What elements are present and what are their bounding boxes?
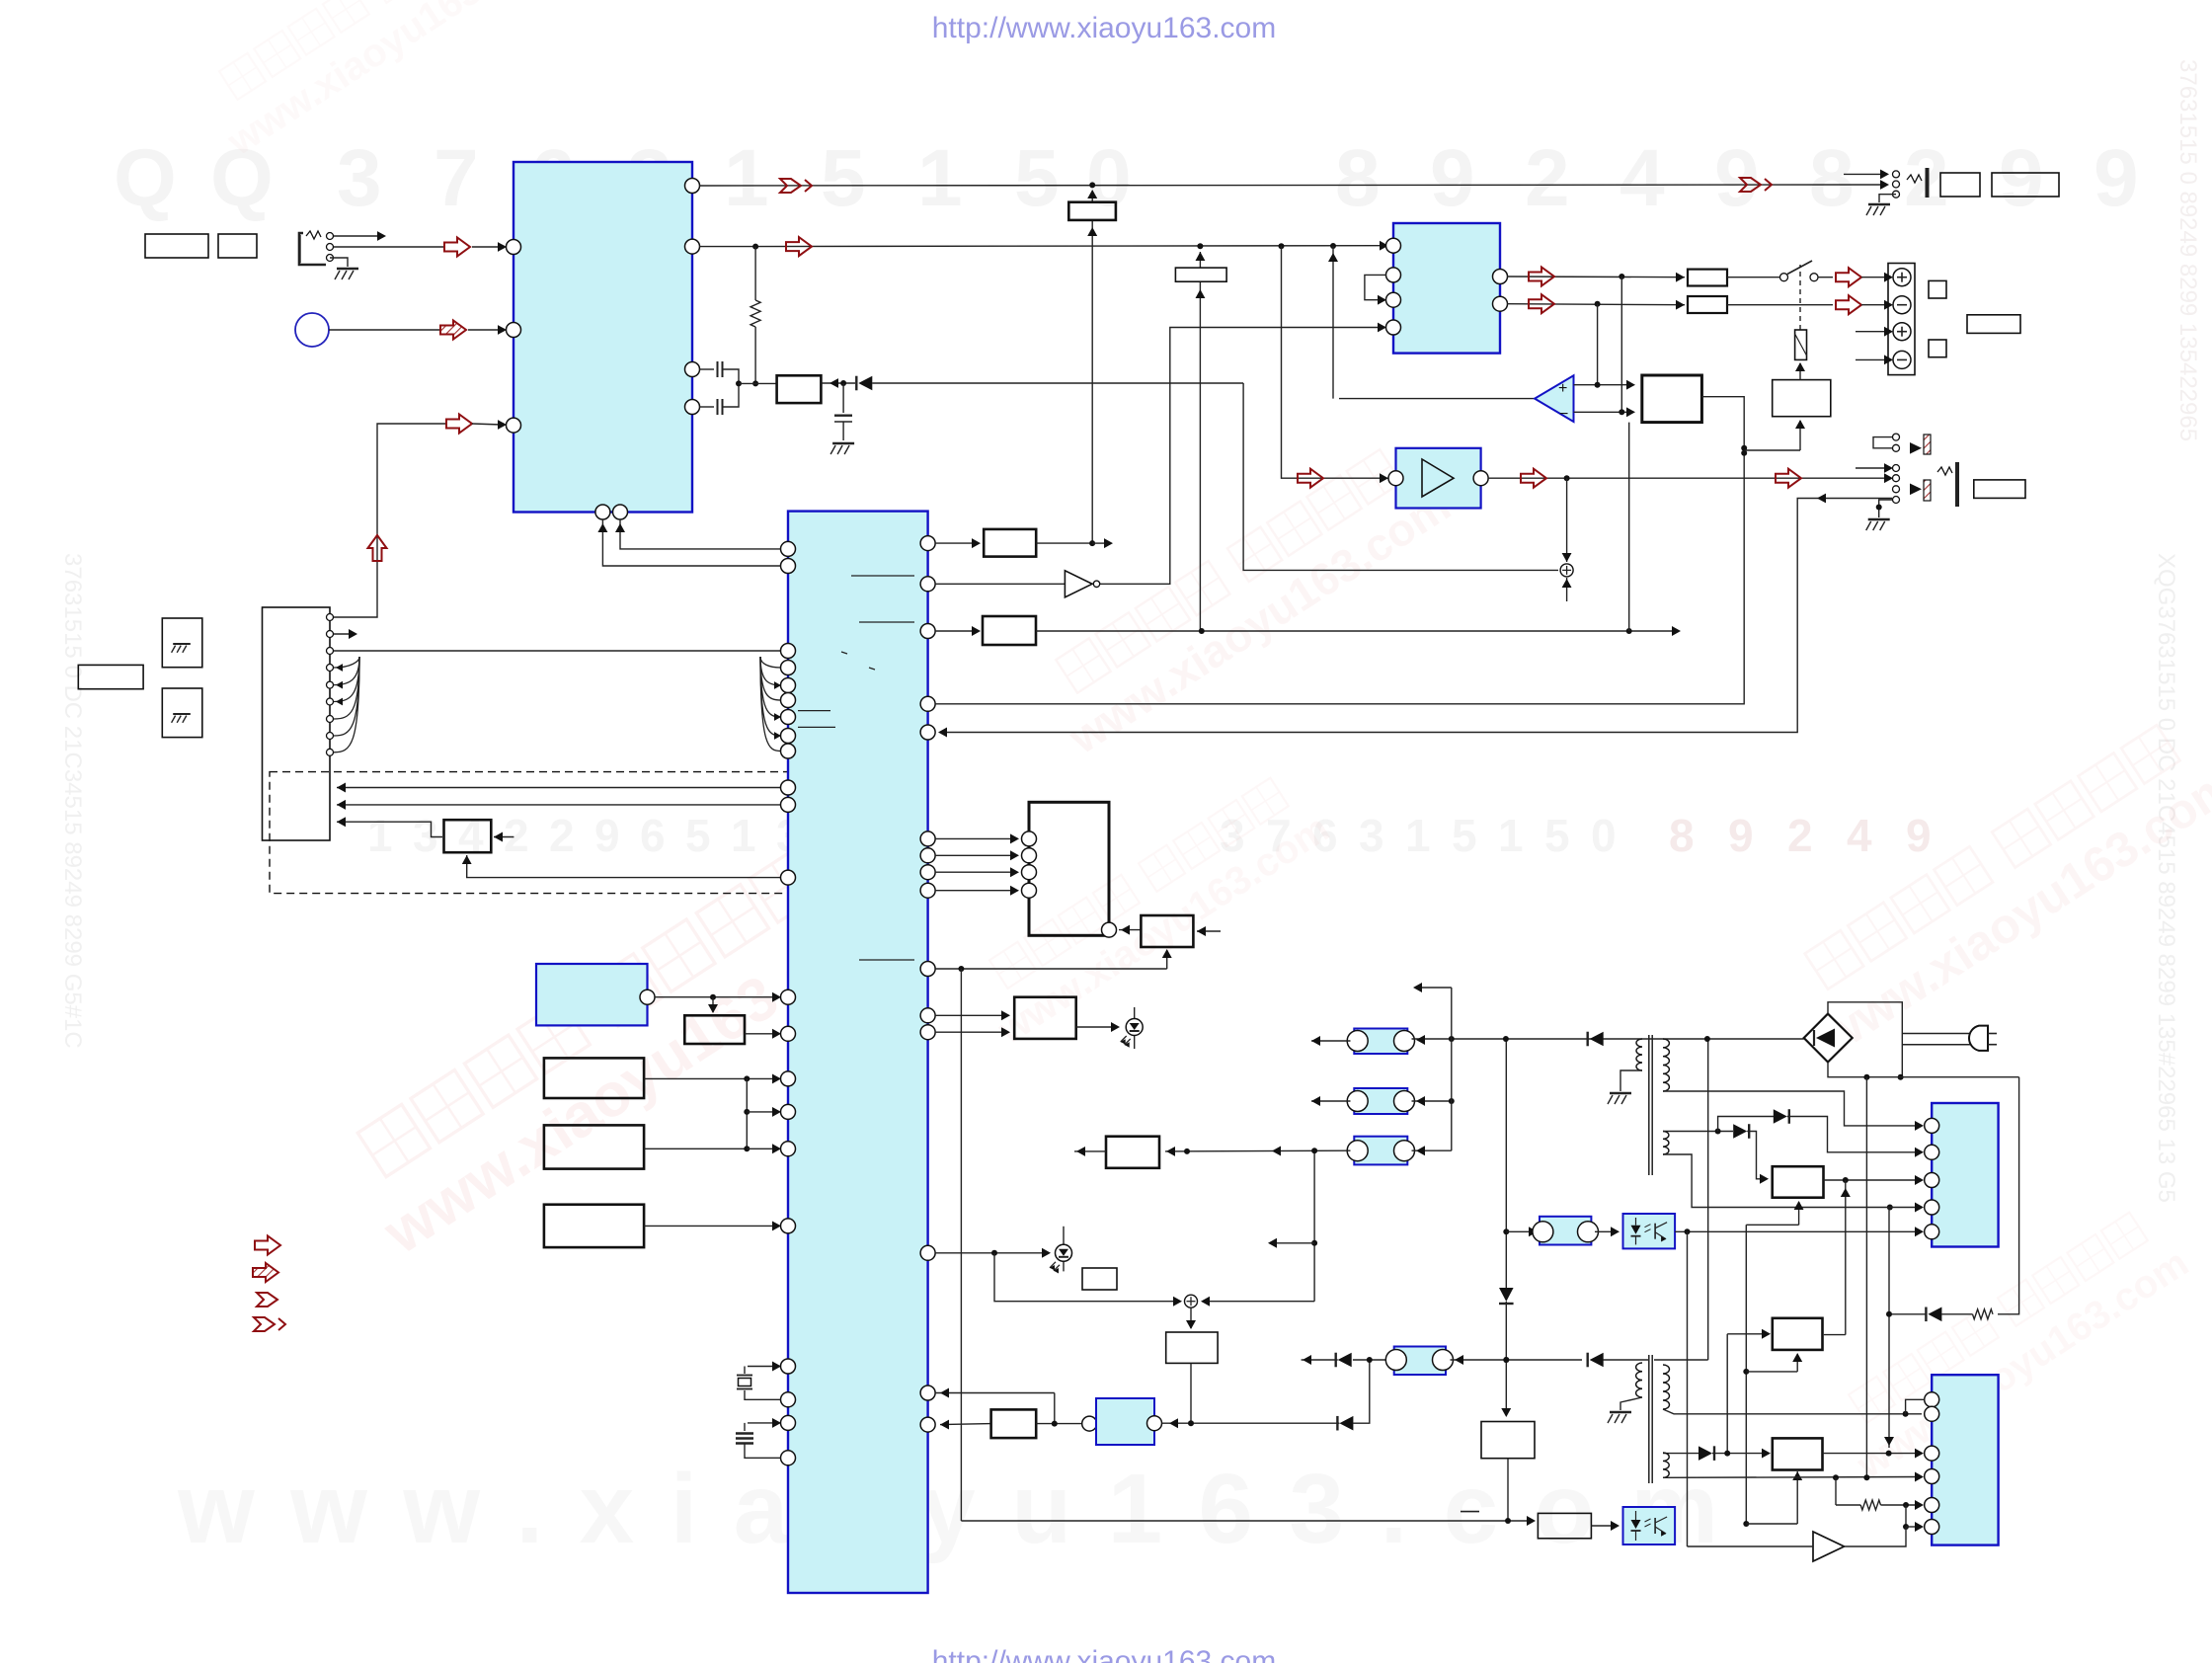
box B34 — [544, 1205, 644, 1247]
svg-text:8: 8 — [1669, 810, 1695, 861]
resistor R1 — [754, 247, 756, 300]
svg-text:9: 9 — [1728, 810, 1754, 861]
ground — [330, 258, 348, 267]
box B13 — [1688, 296, 1727, 313]
svg-text:w w w . x i a o y u 1 6 3 . c: w w w . x i a o y u 1 6 3 . c o m — [177, 1454, 1718, 1564]
box B10 — [1940, 173, 1980, 197]
transformer T2 — [1649, 1354, 1652, 1356]
box B35 — [684, 1015, 745, 1044]
T2 sec2 wire — [1663, 1476, 1922, 1479]
box B25 — [1082, 1268, 1117, 1290]
watermark: pink diagonal stamps — [332, 825, 909, 1268]
wire U3 out L — [1507, 304, 1685, 305]
LED D-L1 — [1076, 1026, 1116, 1028]
box B33 — [544, 1125, 644, 1168]
svg-text:8: 8 — [1809, 133, 1855, 223]
dashed service box — [270, 772, 806, 894]
U10 pin1 loop — [1906, 1399, 1925, 1414]
B21 bottom feed — [935, 968, 1167, 970]
svg-text:9: 9 — [1906, 810, 1932, 861]
wire d4 — [467, 855, 781, 878]
feedback vertical — [1888, 1208, 1890, 1449]
arrow in2 (hatched) — [440, 321, 466, 340]
svg-text:6: 6 — [640, 810, 666, 861]
connector CN-D — [1394, 1347, 1446, 1376]
bridge DC rail — [1828, 1063, 2019, 1077]
box B30 regulator — [1773, 1166, 1824, 1198]
svg-text:XQG37631515 0 DC 21C4515 89249: XQG37631515 0 DC 21C4515 89249 8299 135#… — [2153, 553, 2179, 1203]
long vertical from pin — [960, 969, 962, 1521]
timer LED D-L2 — [935, 1252, 1049, 1254]
svg-text:9: 9 — [1430, 133, 1475, 223]
vertical via B8 — [1199, 252, 1201, 268]
svg-text:1: 1 — [367, 810, 393, 861]
box B6 — [444, 820, 492, 852]
svg-text:Q: Q — [114, 133, 177, 223]
IC U9 power ctrl — [1932, 1103, 1998, 1247]
ground — [1879, 195, 1896, 202]
svg-text:3: 3 — [337, 133, 382, 223]
S2 to B27 — [1190, 1307, 1192, 1328]
IC U11 display block — [536, 964, 648, 1025]
relay drive — [1744, 449, 1800, 451]
T1 sec2 out — [1663, 1154, 1886, 1208]
crystal X1 — [748, 1366, 780, 1368]
mic input circle — [295, 313, 329, 347]
T1 sec1 out — [1663, 1091, 1922, 1126]
svg-text:5: 5 — [1544, 810, 1570, 861]
arrow up symbol — [368, 535, 387, 561]
box B17 — [1929, 340, 1946, 357]
box B32 regulator — [1773, 1438, 1823, 1469]
T2 sec1 wire — [1663, 1409, 1922, 1414]
right rail down — [1998, 1077, 2019, 1314]
svg-text:9: 9 — [594, 810, 620, 861]
box B28 — [1481, 1422, 1535, 1459]
IC U1 main block — [513, 162, 692, 513]
box B18 — [1967, 315, 2020, 334]
diode D4 — [1590, 1353, 1604, 1368]
svg-text:37631515 0 89249 8299 13542296: 37631515 0 89249 8299 135422965 — [2174, 59, 2201, 441]
primary rail vertical — [1707, 1039, 1709, 1360]
svg-text:2: 2 — [1787, 810, 1813, 861]
svg-text:4: 4 — [1619, 133, 1665, 223]
box B16 — [1929, 280, 1946, 298]
box B3 — [78, 665, 143, 688]
ground box B4 — [162, 618, 202, 668]
connector CN-E — [1506, 1230, 1536, 1232]
wire — [329, 329, 442, 331]
box B27 — [1166, 1332, 1218, 1363]
optocoupler PC2 — [1623, 1507, 1676, 1544]
svg-text:8: 8 — [1335, 133, 1381, 223]
jack ground — [1879, 500, 1892, 517]
wires U1 bottom to U2 — [620, 519, 781, 549]
box B36 — [544, 1058, 644, 1098]
svg-text:http://www.xiaoyu163.com: http://www.xiaoyu163.com — [932, 1645, 1277, 1663]
wire U2 out to B20 — [935, 542, 977, 544]
wire — [334, 633, 352, 635]
wire to U1 pin1 — [334, 246, 444, 248]
comparator U5 — [1620, 277, 1622, 412]
svg-text:1: 1 — [724, 133, 769, 223]
wire with diode D3 — [1302, 1359, 1338, 1361]
wire — [334, 235, 380, 237]
legend arrows — [255, 1236, 280, 1255]
arrow in3 — [446, 415, 472, 434]
box B12 — [1688, 270, 1727, 286]
rectifier diodes D8 D9 — [1663, 1131, 1733, 1133]
inverter U4 — [935, 583, 1065, 585]
branch vertical — [1313, 1151, 1315, 1302]
wire B9 drop — [1628, 423, 1630, 631]
box B29 — [1538, 1513, 1591, 1538]
loop pin2-pin3 — [1365, 275, 1386, 299]
capacitor C2 — [699, 406, 714, 408]
box B7 — [1068, 202, 1116, 220]
B9 out — [935, 397, 1744, 704]
box label B1 — [145, 234, 208, 258]
box B31 regulator — [1773, 1318, 1823, 1350]
box B-AGC — [739, 382, 777, 384]
wire d2 — [337, 804, 781, 806]
box B15 — [1773, 380, 1831, 417]
box B19 — [1974, 480, 2025, 499]
svg-text:http://www.xiaoyu163.com: http://www.xiaoyu163.com — [932, 12, 1277, 44]
svg-text:2: 2 — [549, 810, 575, 861]
bundle arcs left — [334, 657, 359, 668]
CN bus vertical — [1451, 988, 1453, 1150]
U6 out to phones — [1488, 477, 1889, 479]
box label B2 — [218, 234, 257, 258]
transformer T1 — [1648, 1035, 1650, 1175]
box B20b — [983, 616, 1036, 645]
headphone jack J3 — [1893, 434, 1900, 440]
power block B21 — [935, 837, 1017, 839]
buffer U8 to pin6 — [1905, 1505, 1907, 1527]
PC1 output to U9 — [1675, 1230, 1922, 1232]
wire d1 — [337, 787, 781, 789]
connector CN1 — [1354, 1029, 1407, 1055]
phones return wire — [940, 499, 1892, 733]
box B24 — [940, 1424, 991, 1425]
wire to summer — [1243, 383, 1558, 570]
stub — [494, 836, 513, 838]
speaker terminal strip — [1888, 264, 1915, 375]
capacitor C1 — [699, 368, 714, 370]
wires lower terminals — [1856, 331, 1889, 333]
switch SW1 — [1780, 274, 1788, 281]
IC U3 audio dsp — [1393, 223, 1500, 354]
S2 right input — [1203, 1301, 1314, 1303]
svg-text:1: 1 — [731, 810, 756, 861]
svg-text:4: 4 — [1847, 810, 1872, 861]
svg-text:2: 2 — [504, 810, 529, 861]
resistor R2 — [1835, 1477, 1837, 1505]
bundle arcs right — [760, 657, 781, 668]
optocoupler PC1 — [1623, 1214, 1676, 1248]
svg-text:5: 5 — [821, 133, 866, 223]
standby bus wire — [961, 1520, 1534, 1522]
AC plug — [1828, 1002, 1902, 1077]
IC U7 small — [1096, 1398, 1154, 1445]
svg-text:1: 1 — [1498, 810, 1524, 861]
summer S1 — [1566, 478, 1568, 562]
svg-text:9: 9 — [1999, 133, 2044, 223]
box B20 — [984, 529, 1036, 557]
B32 bottom feed — [1746, 1523, 1797, 1525]
box B11 — [1992, 173, 2059, 197]
B30 bottom feed — [1746, 1224, 1798, 1226]
wire to summer S2 — [994, 1253, 1179, 1302]
connector CN A — [263, 607, 331, 840]
wire U2 out to B20b — [935, 630, 977, 632]
box B9 — [1642, 375, 1702, 423]
diode D7 — [1590, 1032, 1604, 1047]
vertical via B7 — [1091, 220, 1093, 543]
svg-text:9: 9 — [2093, 133, 2139, 223]
svg-text:37631515 0 DC 21C34515 89249 8: 37631515 0 DC 21C34515 89249 8299 G5#1C — [59, 553, 86, 1049]
svg-text:5: 5 — [1452, 810, 1477, 861]
headphone jack J2 — [1844, 173, 1884, 175]
bus wire — [334, 650, 780, 652]
IC U10 power drv — [1932, 1375, 1998, 1544]
IC U2 system control block — [788, 512, 928, 1593]
wire U3 out R — [1507, 276, 1685, 278]
capacitor C3 to ground — [842, 383, 844, 413]
top output wire — [699, 185, 1884, 186]
svg-text:2: 2 — [1525, 133, 1570, 223]
svg-text:5: 5 — [1014, 133, 1060, 223]
svg-text:5: 5 — [685, 810, 711, 861]
wire U1 to U3 — [699, 245, 1386, 248]
line out amp U6 — [1282, 246, 1389, 478]
svg-text:+: + — [1558, 380, 1567, 397]
svg-text:7: 7 — [434, 133, 479, 223]
svg-text:0: 0 — [1086, 133, 1132, 223]
tick — [1461, 1511, 1479, 1513]
internal pin ticks — [851, 575, 914, 577]
svg-text:0: 0 — [1591, 810, 1617, 861]
wire via diode D1 — [821, 382, 855, 384]
svg-text:1: 1 — [1405, 810, 1431, 861]
svg-text:−: − — [1559, 406, 1568, 423]
crystal X2 — [748, 1422, 780, 1424]
svg-text:1: 1 — [917, 133, 963, 223]
standby feed — [935, 1392, 1055, 1394]
connector CN2 — [1354, 1088, 1407, 1114]
wire key-in — [334, 424, 446, 617]
line-in jack J1 — [299, 233, 326, 265]
wire d3 — [337, 822, 442, 836]
rail vertical with diode D5 — [1505, 1039, 1507, 1288]
arrow in1 — [444, 238, 470, 257]
power sense box B23 — [935, 1014, 1006, 1016]
wire with diode D2 — [1162, 1422, 1340, 1424]
box B22 — [1119, 929, 1141, 931]
svg-text:3: 3 — [413, 810, 438, 861]
bridge rectifier BR1 — [1804, 1014, 1853, 1063]
box B8 — [1175, 268, 1226, 281]
relay coil B14 — [1795, 330, 1807, 359]
box B26 — [1106, 1137, 1159, 1168]
ground box B5 — [162, 688, 202, 738]
connector CN3 — [1354, 1137, 1407, 1165]
svg-text:3: 3 — [1359, 810, 1384, 861]
